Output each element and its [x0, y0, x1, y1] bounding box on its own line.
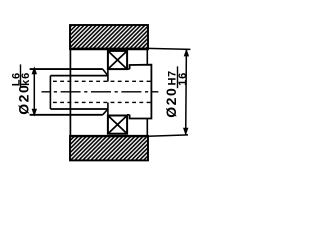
bearing inner edge vertical top: [107, 69, 109, 82]
shaft chamfer bottom left: [103, 109, 108, 115]
collar (right sleeve) outline: [130, 65, 152, 119]
ledge right of bottom box: [127, 114, 130, 116]
shaft inner top line: [50, 75, 108, 77]
housing right face lower: [146, 119, 148, 137]
right dimension extension line top: [148, 48, 190, 49]
bearing top (box with cross): [108, 51, 127, 69]
right dimension extension line bottom: [148, 135, 188, 136]
shaft seat bottom line (also left dim extension): [30, 114, 103, 116]
right label: dia 20 H7/l6 (rotated): [163, 66, 189, 117]
bearing bottom (box with cross): [108, 116, 127, 134]
shaft chamfer top left: [103, 69, 108, 75]
hidden bore line top (dashed): [53, 80, 151, 82]
bearing inner edge vertical bottom: [107, 103, 109, 116]
right dimension line with arrows: [183, 49, 189, 136]
housing right face upper: [146, 49, 148, 65]
housing bottom section (hatched): [69, 136, 149, 160]
housing top section (hatched): [69, 25, 149, 49]
svg-text:16: 16: [177, 72, 189, 86]
shaft seat top line (also left dim extension): [30, 68, 103, 70]
ledge right of top box: [127, 68, 130, 70]
hidden bore line bottom (dashed): [53, 101, 151, 103]
housing left face: [69, 49, 71, 136]
left label: dia 20 L6/k6 (rotated): [11, 64, 33, 114]
svg-text:k6: k6: [20, 72, 32, 86]
center line (dash-dot): [42, 91, 159, 93]
svg-text:Ø20: Ø20: [15, 84, 31, 115]
left dimension line with arrows: [32, 66, 37, 116]
shaft inner bottom line: [50, 108, 108, 110]
shaft left end face: [49, 76, 51, 109]
svg-text:Ø20: Ø20: [163, 87, 179, 118]
